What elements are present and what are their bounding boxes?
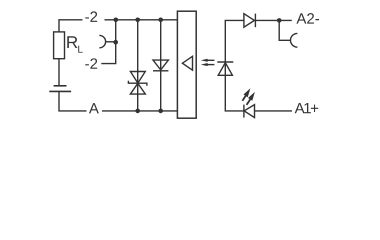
junction top rail at diode branch (158, 18, 163, 23)
terminal label -2 mid (85, 58, 97, 68)
battery short plate (54, 85, 67, 87)
diode V1 cathode bar (153, 70, 168, 72)
terminal label -2 top (85, 11, 97, 21)
indicator LED emission arrow 1 head (243, 88, 250, 97)
terminal label A (89, 103, 99, 113)
junction top rail at TVS branch (135, 18, 140, 23)
light arrow lower shaft (207, 64, 214, 66)
label RL subscript (78, 46, 82, 53)
junction top rail at -2 branch (114, 18, 119, 23)
indicator LED emission arrow 1 shaft (242, 96, 245, 101)
optocoupler receiver box U1 (177, 11, 196, 118)
label RL (67, 36, 77, 48)
wire indicator LED to A1+ terminal (255, 110, 293, 112)
wire top-left from resistor to -2 label (59, 20, 83, 32)
TVS suppressor bottom triangle (130, 83, 145, 94)
wire bottom rail (102, 110, 177, 112)
socket contact right (open right) (290, 33, 297, 47)
wire diode D1 to A2- terminal (255, 19, 291, 21)
light arrow upper head (201, 59, 208, 62)
TVS suppressor top triangle (130, 72, 145, 84)
indicator LED triangle (244, 105, 254, 118)
opto LED cathode bar (217, 61, 233, 63)
wire battery to bottom rail and right to A label (59, 91, 87, 111)
battery long plate (49, 90, 71, 92)
terminal label A2- (296, 13, 319, 23)
receiver input triangle (182, 56, 192, 70)
wire drop to right socket contact (279, 20, 290, 40)
wire -2 branch vertical with corner to mid -2 label (101, 20, 115, 64)
junction bottom rail at TVS branch (135, 109, 140, 114)
wire diode branch vertical (160, 20, 162, 111)
indicator LED emission arrow 2 shaft (247, 99, 251, 105)
TVS suppressor zener bar with hooks (128, 81, 147, 86)
junction bottom rail at diode branch (158, 109, 163, 114)
diode V1 triangle (153, 60, 168, 70)
socket contact left (open left) (99, 35, 105, 47)
diode D1 cathode bar (254, 14, 256, 28)
wire stub to left socket contact (106, 41, 116, 43)
indicator LED cathode bar (243, 105, 245, 118)
wire input vertical with top and bottom corners (225, 20, 244, 111)
junction at left socket stub (113, 40, 118, 45)
light arrow upper shaft (207, 59, 214, 61)
wire resistor to battery (58, 59, 60, 86)
light arrow lower head (201, 63, 208, 66)
resistor RL (54, 32, 65, 59)
indicator LED emission arrow 2 head (248, 92, 255, 101)
terminal label A1+ (295, 103, 319, 113)
wire top rail (105, 19, 178, 21)
wire TVS branch vertical (137, 20, 139, 111)
opto LED triangle (218, 63, 232, 76)
diode D1 triangle (244, 14, 255, 28)
junction at A2- socket stub (277, 18, 282, 23)
